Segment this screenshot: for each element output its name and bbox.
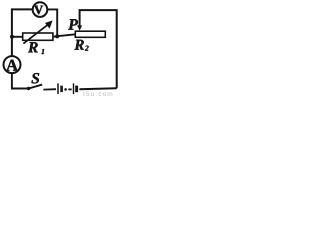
ammeter A <box>4 56 21 73</box>
wire: bottom-left rail and left border lower <box>12 73 28 88</box>
battery cell 1 long plate <box>57 83 59 94</box>
wire: left border upper and top-left wire <box>12 9 33 56</box>
battery cell 1 short thick plate <box>60 86 63 92</box>
switch S blade <box>29 85 43 89</box>
wire: R1 right side to junction <box>53 36 57 38</box>
battery cell 2 long plate <box>73 83 75 94</box>
label R2 <box>74 40 88 51</box>
label P <box>68 19 78 29</box>
node: R1 branch tap on left border <box>10 35 14 39</box>
resistor R2 (potentiometer body) <box>75 31 105 37</box>
wire: junction to R2 left terminal <box>57 34 75 36</box>
svg-text:t5u.com: t5u.com <box>83 91 114 97</box>
label R1 <box>28 42 44 54</box>
rheostat arrow of R1 <box>23 20 52 43</box>
slider P arrow onto R2 <box>77 20 82 31</box>
wire: voltmeter right, corner down to junction <box>48 9 58 36</box>
wire: bottom rail right of battery <box>79 88 116 89</box>
node: junction dot <box>55 34 59 38</box>
wire: dash between cells <box>68 88 71 90</box>
battery cell 2 short thick plate <box>75 86 78 93</box>
wire: switch to battery <box>43 88 56 90</box>
switch S left terminal <box>27 87 30 90</box>
label S <box>32 73 40 83</box>
voltmeter V <box>33 2 48 17</box>
watermark <box>83 91 114 98</box>
wire: slider riser, top-right wire, right border <box>80 10 117 88</box>
wire: left border to R1 <box>12 36 24 38</box>
resistor R1 (rheostat body) <box>23 33 53 40</box>
node: dot between cells <box>64 88 67 91</box>
